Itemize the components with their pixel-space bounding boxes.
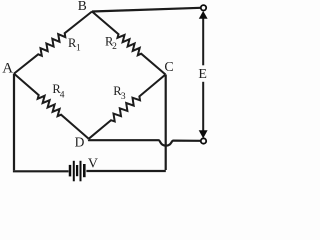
svg-text:4: 4 — [60, 90, 65, 100]
svg-text:D: D — [75, 135, 85, 150]
svg-text:1: 1 — [76, 44, 81, 54]
svg-text:2: 2 — [112, 42, 117, 52]
svg-text:B: B — [78, 0, 87, 13]
svg-text:E: E — [198, 67, 207, 82]
svg-text:V: V — [88, 157, 98, 172]
svg-text:3: 3 — [121, 92, 126, 102]
svg-text:C: C — [164, 60, 173, 75]
svg-text:A: A — [2, 61, 13, 77]
